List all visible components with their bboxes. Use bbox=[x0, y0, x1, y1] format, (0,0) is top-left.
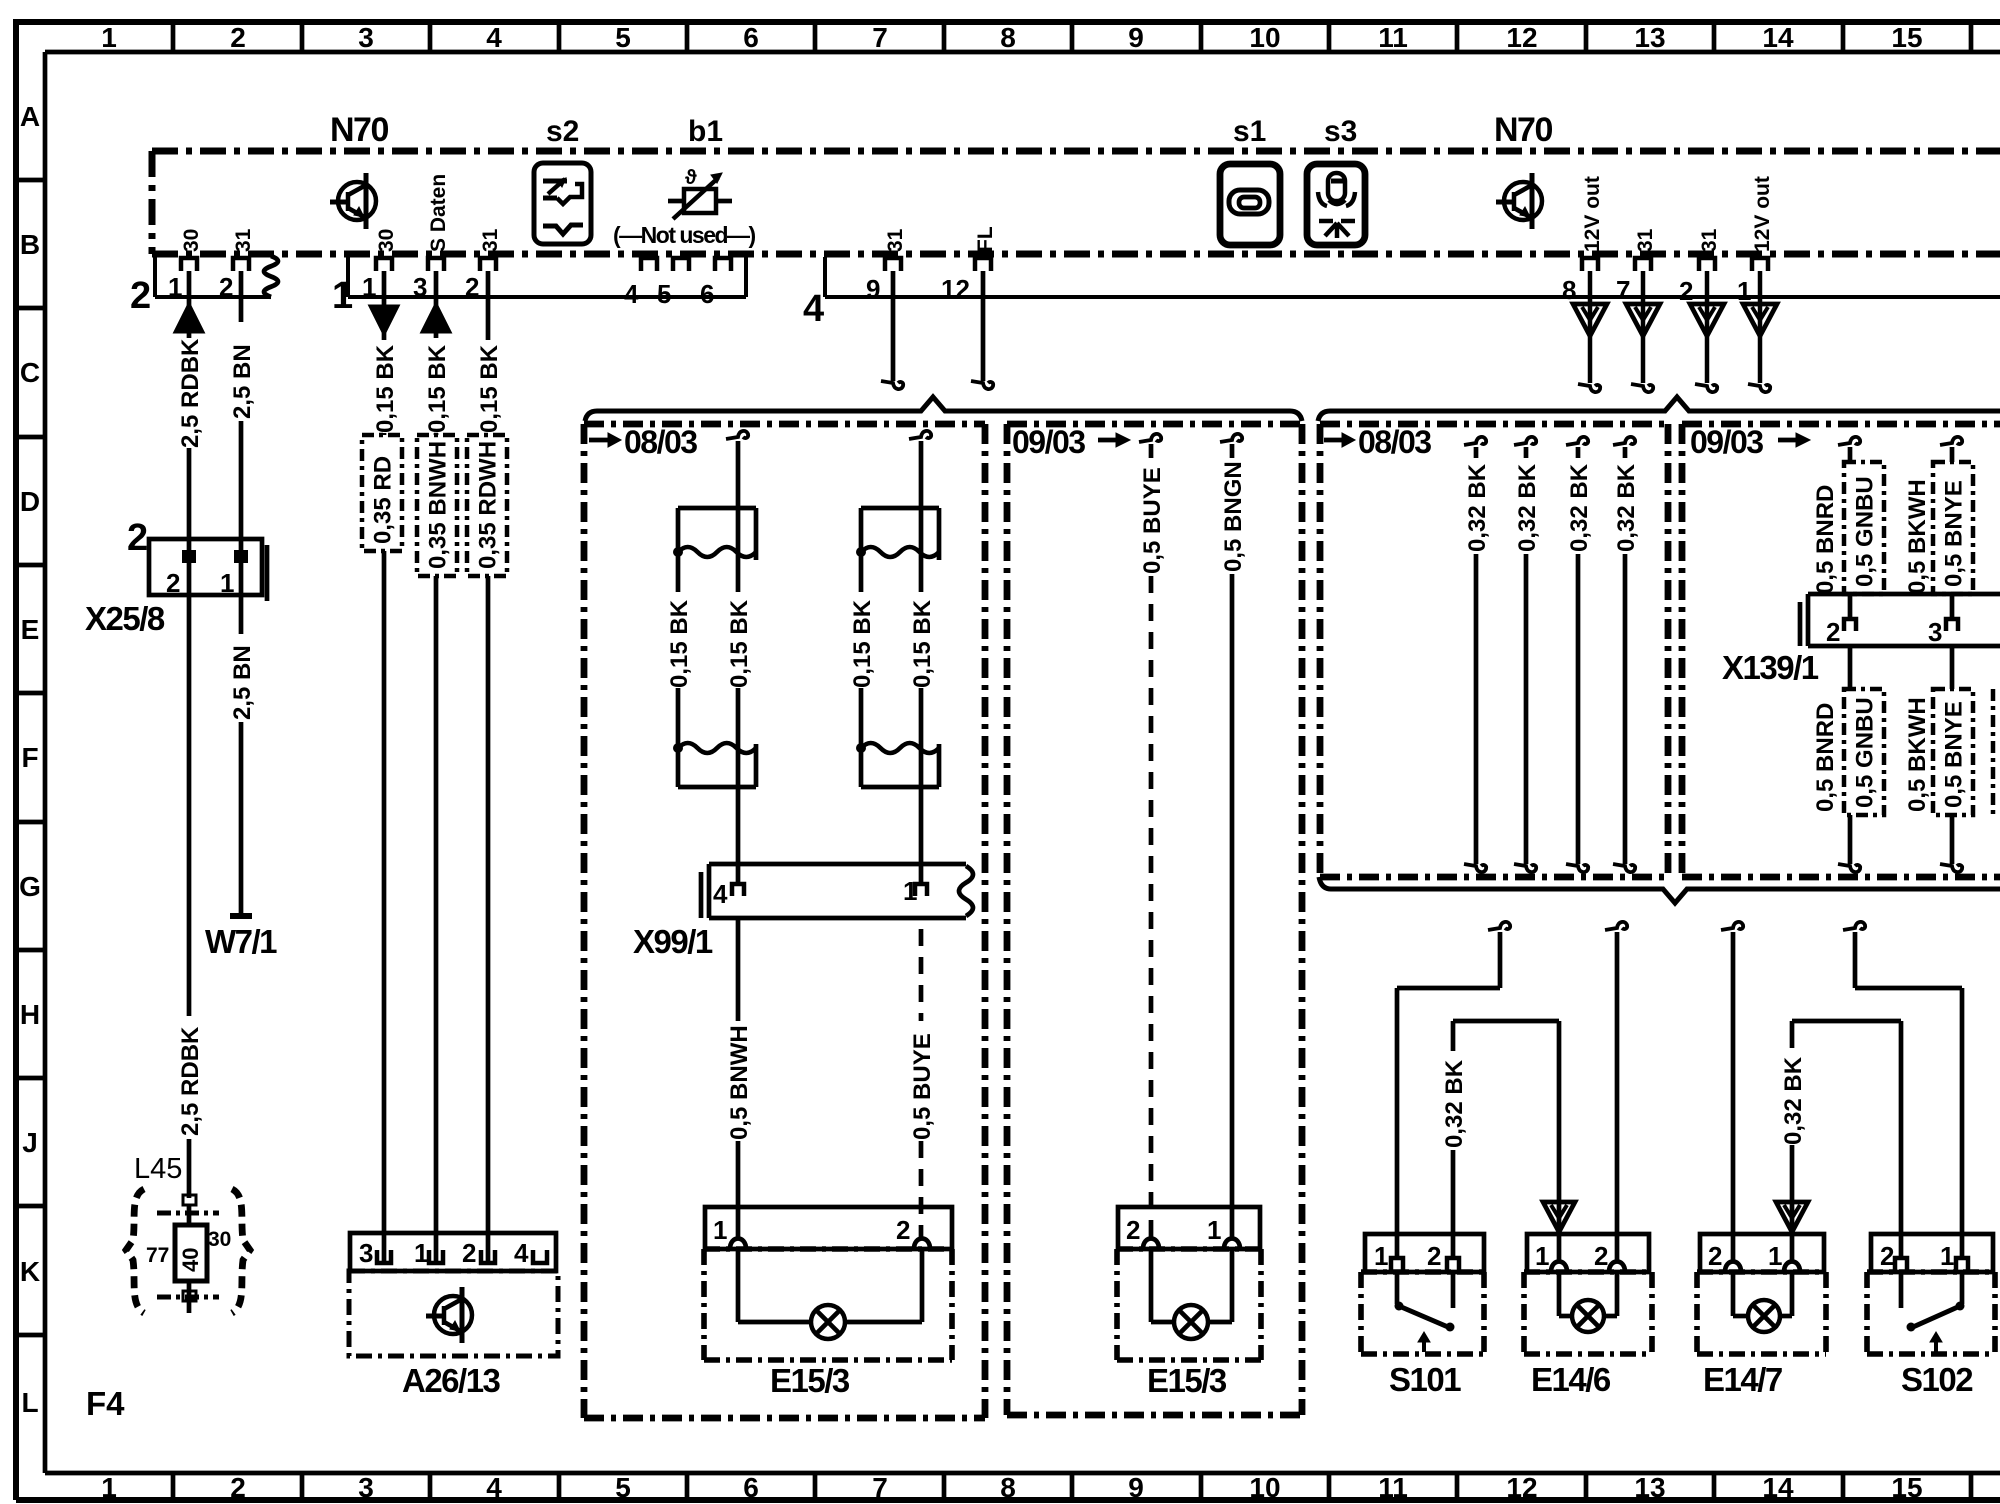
heated door lamp unit E15/3 left box bbox=[704, 1207, 952, 1360]
svg-text:15: 15 bbox=[1891, 22, 1922, 53]
wire 0,5 BNGN bbox=[1220, 434, 1242, 1240]
amplifier A26/13 box bbox=[349, 1233, 558, 1356]
label E15/3 bbox=[770, 1362, 850, 1399]
svg-text:0,15 BK: 0,15 BK bbox=[476, 344, 503, 433]
label s2 bbox=[546, 115, 579, 148]
switch s3 icon in N70 bbox=[1307, 164, 1365, 245]
label s1 bbox=[1233, 115, 1266, 148]
wire to E14/7 pin2 bbox=[1721, 922, 1743, 1260]
wire label 0,32 BK bbox=[1566, 463, 1593, 552]
svg-text:ϑ: ϑ bbox=[685, 167, 697, 189]
svg-text:8: 8 bbox=[1000, 22, 1016, 53]
switch s1 icon in N70 bbox=[1220, 164, 1280, 245]
svg-text:0,5 GNBU: 0,5 GNBU bbox=[1852, 476, 1879, 587]
wire from pin 9 bbox=[881, 271, 903, 389]
harness box 09/03 right (dash-dot) bbox=[1682, 424, 2000, 877]
svg-text:E15/3: E15/3 bbox=[770, 1362, 850, 1399]
svg-text:S Daten: S Daten bbox=[427, 174, 450, 252]
label S101 bbox=[1389, 1361, 1461, 1398]
pin 1 of connector 2 bbox=[168, 258, 197, 302]
wire label 0,32 BK bbox=[1441, 1059, 1468, 1148]
wire label 0,32 BK bbox=[1613, 463, 1640, 552]
label 08/03 with arrow bbox=[1324, 424, 1431, 460]
svg-text:2: 2 bbox=[230, 1472, 246, 1503]
svg-text:2: 2 bbox=[462, 1238, 476, 1268]
terminal label 30 bbox=[375, 229, 398, 252]
label S102 bbox=[1901, 1361, 1973, 1398]
label X25/8 bbox=[85, 600, 165, 637]
svg-text:0,15 BK: 0,15 BK bbox=[372, 344, 399, 433]
wire label 0,5 BNRD bbox=[1812, 485, 1839, 594]
svg-text:3: 3 bbox=[359, 1238, 373, 1268]
pin 6 of connector 1 bbox=[700, 258, 731, 309]
svg-text:09/03: 09/03 bbox=[1690, 424, 1763, 460]
svg-text:0,32 BK: 0,32 BK bbox=[1780, 1056, 1807, 1145]
terminal label 31 bbox=[884, 228, 907, 252]
svg-text:14: 14 bbox=[1762, 22, 1794, 53]
wire label 0,32 BK bbox=[1780, 1056, 1807, 1145]
wire 0,5 BNWH bbox=[736, 918, 741, 1240]
svg-text:0,32 BK: 0,32 BK bbox=[1464, 463, 1491, 552]
pin 5 of connector 1 bbox=[657, 258, 689, 309]
wire spec box 0,5 GNBU bbox=[1844, 462, 1884, 594]
wire label 0,5 BNWH bbox=[726, 1025, 753, 1140]
svg-text:N70: N70 bbox=[330, 111, 388, 149]
wire label 0,32 BK bbox=[1464, 463, 1491, 552]
svg-text:10: 10 bbox=[1249, 1472, 1280, 1503]
wire 2,5 RDBK to fuse F4 bbox=[187, 595, 192, 1198]
svg-text:31: 31 bbox=[232, 228, 255, 252]
svg-text:G: G bbox=[19, 871, 41, 902]
wire label 2,5 RDBK bbox=[177, 338, 204, 448]
label E14/7 bbox=[1703, 1361, 1782, 1398]
label E15/3 bbox=[1147, 1362, 1227, 1399]
svg-text:1: 1 bbox=[1737, 276, 1751, 306]
svg-text:(—Not used—): (—Not used—) bbox=[613, 222, 756, 248]
svg-text:0,32 BK: 0,32 BK bbox=[1441, 1059, 1468, 1148]
svg-text:1: 1 bbox=[220, 568, 234, 598]
wire label 0,5 BNGN bbox=[1220, 461, 1247, 572]
svg-text:11: 11 bbox=[1378, 1472, 1408, 1503]
wire spec box 0,35 RD bbox=[362, 435, 402, 551]
wire 0,15 BK pin2 bbox=[486, 271, 491, 340]
lamp symbol E14/7 bbox=[1748, 1300, 1780, 1332]
label F4 bbox=[86, 1385, 125, 1422]
label W7/1 bbox=[205, 923, 277, 960]
wire to A26/13 pin1 bbox=[434, 576, 439, 1262]
wire spec box 0,5 BNYE bbox=[1933, 689, 1973, 815]
svg-text:2: 2 bbox=[230, 22, 246, 53]
svg-text:12: 12 bbox=[941, 274, 970, 304]
svg-text:1: 1 bbox=[1207, 1215, 1221, 1245]
label 09/03 with arrow bbox=[1012, 424, 1130, 460]
wire from N70 x=1590 bbox=[1573, 271, 1607, 392]
svg-text:s2: s2 bbox=[546, 115, 579, 148]
svg-text:12V out: 12V out bbox=[1751, 176, 1774, 252]
svg-text:0,5 BUYE: 0,5 BUYE bbox=[1139, 467, 1166, 574]
wire spec box 0,35 BNWH bbox=[417, 435, 457, 576]
svg-text:B: B bbox=[20, 229, 40, 260]
svg-text:1: 1 bbox=[101, 1472, 117, 1503]
svg-text:15: 15 bbox=[1891, 1472, 1922, 1503]
wire hook bbox=[909, 431, 931, 508]
label b1 bbox=[688, 115, 723, 148]
svg-text:2: 2 bbox=[1126, 1215, 1140, 1245]
label X99/1 bbox=[633, 923, 713, 960]
wire spec box cropped at edge bbox=[1991, 689, 1996, 815]
svg-text:S101: S101 bbox=[1389, 1361, 1461, 1398]
terminal label 30 bbox=[180, 229, 203, 252]
svg-text:S102: S102 bbox=[1901, 1361, 1973, 1398]
wire label 2,5 BN bbox=[229, 344, 256, 419]
svg-text:0,5 GNBU: 0,5 GNBU bbox=[1852, 697, 1879, 808]
svg-text:40: 40 bbox=[178, 1248, 203, 1272]
svg-text:F4: F4 bbox=[86, 1385, 125, 1422]
svg-text:0,35 RD: 0,35 RD bbox=[370, 456, 397, 544]
svg-text:0,5 BKWH: 0,5 BKWH bbox=[1904, 479, 1931, 594]
wire to E14/6 pin2 bbox=[1605, 922, 1627, 1260]
pin 2 of connector 1 bbox=[465, 258, 496, 302]
wire 0,15 BK bbox=[676, 552, 681, 744]
svg-text:11: 11 bbox=[1378, 22, 1408, 53]
svg-text:1: 1 bbox=[101, 22, 117, 53]
svg-text:D: D bbox=[20, 486, 40, 517]
wire 0,5 BKWH/BNYE upper bbox=[1940, 437, 1962, 620]
svg-text:2,5 BN: 2,5 BN bbox=[229, 645, 256, 720]
svg-text:2: 2 bbox=[465, 272, 479, 302]
harness box 08/03 right (dash-dot) bbox=[1320, 424, 1668, 877]
svg-text:4: 4 bbox=[713, 879, 728, 909]
wiring inside E14/7 bbox=[1733, 1272, 1792, 1316]
wire 2,5 RDBK upper segment bbox=[175, 271, 203, 551]
svg-text:1: 1 bbox=[1940, 1241, 1954, 1271]
wire from N70 x=1643 bbox=[1626, 271, 1660, 392]
wire 0,5 BKWH/BNYE lower bbox=[1940, 646, 1962, 872]
svg-text:4: 4 bbox=[486, 1472, 502, 1503]
svg-text:L: L bbox=[21, 1387, 38, 1418]
glow element lower right bbox=[856, 743, 939, 787]
terminal label 12V out bbox=[1581, 176, 1604, 252]
wire spec box 0,35 RDWH bbox=[467, 435, 507, 576]
svg-text:0,35 RDWH: 0,35 RDWH bbox=[475, 441, 502, 569]
wire 0,32 BK x=1476 bbox=[1464, 437, 1486, 872]
svg-text:H: H bbox=[20, 999, 40, 1030]
svg-text:0,15 BK: 0,15 BK bbox=[849, 599, 876, 688]
terminal label 31 bbox=[479, 228, 502, 252]
lamp symbol E14/6 bbox=[1572, 1300, 1604, 1332]
heated door lamp unit E15/3 right box bbox=[1117, 1207, 1261, 1360]
svg-text:E14/7: E14/7 bbox=[1703, 1361, 1782, 1398]
svg-text:1: 1 bbox=[1768, 1241, 1782, 1271]
svg-text:3: 3 bbox=[358, 22, 374, 53]
svg-text:3: 3 bbox=[413, 272, 427, 302]
wire spec box 0,5 GNBU bbox=[1844, 689, 1884, 815]
svg-text:1: 1 bbox=[1374, 1241, 1388, 1271]
svg-text:1: 1 bbox=[362, 272, 376, 302]
wire 0,15 BK bbox=[736, 508, 741, 748]
svg-text:10: 10 bbox=[1249, 22, 1280, 53]
svg-text:7: 7 bbox=[872, 22, 888, 53]
harness under-brace bbox=[1319, 877, 2000, 903]
glow element upper left bbox=[673, 508, 756, 560]
transistor symbol in A26/13 bbox=[426, 1287, 472, 1343]
wire label 0,5 BNRD bbox=[1812, 703, 1839, 812]
svg-text:0,5 BKWH: 0,5 BKWH bbox=[1904, 697, 1931, 812]
switch s2 icon (window lift) in N70 bbox=[534, 163, 591, 244]
svg-text:13: 13 bbox=[1634, 22, 1665, 53]
svg-text:2: 2 bbox=[219, 272, 233, 302]
svg-text:0,5 BNWH: 0,5 BNWH bbox=[726, 1025, 753, 1140]
svg-text:8: 8 bbox=[1562, 275, 1576, 305]
wire label 0,15 BK bbox=[849, 599, 876, 688]
wire 0,5 BUYE (dashed) bbox=[1139, 434, 1161, 1240]
fuse connection pin top bbox=[157, 1195, 219, 1213]
svg-text:X139/1: X139/1 bbox=[1722, 649, 1819, 686]
svg-text:2,5 RDBK: 2,5 RDBK bbox=[177, 1026, 204, 1136]
svg-text:K: K bbox=[20, 1256, 40, 1287]
terminal label 30 bbox=[208, 1228, 231, 1251]
svg-text:31: 31 bbox=[884, 228, 907, 252]
svg-text:12: 12 bbox=[1506, 1472, 1537, 1503]
svg-text:E15/3: E15/3 bbox=[1147, 1362, 1227, 1399]
svg-text:12: 12 bbox=[1506, 22, 1537, 53]
pin 2 of N70 bbox=[1679, 258, 1715, 306]
wire label 2,5 RDBK bbox=[177, 1026, 204, 1136]
label L45 bbox=[134, 1153, 182, 1185]
wire label 0,5 BKWH bbox=[1904, 479, 1931, 594]
wire to S101 pin1 bbox=[1397, 922, 1510, 1260]
lamp E14/7 box bbox=[1697, 1234, 1826, 1354]
svg-text:31: 31 bbox=[1698, 228, 1721, 252]
wire 2,5 BN to ground bbox=[239, 595, 244, 914]
svg-text:0,5 BNYE: 0,5 BNYE bbox=[1941, 480, 1968, 587]
svg-text:1: 1 bbox=[168, 272, 182, 302]
svg-text:1: 1 bbox=[1535, 1241, 1549, 1271]
svg-text:0,5 BNRD: 0,5 BNRD bbox=[1812, 485, 1839, 594]
connector X99/1 bbox=[701, 864, 973, 918]
terminal label 77 bbox=[146, 1244, 169, 1267]
wire 0,15 BK bbox=[919, 508, 924, 748]
wire 0,15 BK pin1 bbox=[370, 271, 398, 435]
wire 0,32 BK link S101-E14/6 bbox=[1453, 1021, 1575, 1260]
connector X139/1 bbox=[1800, 594, 2000, 647]
wire label 0,15 BK bbox=[424, 344, 451, 433]
svg-text:2: 2 bbox=[1708, 1241, 1722, 1271]
wire label 0,5 BUYE bbox=[1139, 467, 1166, 574]
wire to S102 pin1 bbox=[1843, 922, 1962, 1260]
pin 9 of connector 4 bbox=[866, 258, 901, 304]
svg-text:0,15 BK: 0,15 BK bbox=[424, 344, 451, 433]
wire label 2,5 BN bbox=[229, 645, 256, 720]
wire label 0,15 BK bbox=[666, 599, 693, 688]
switch S102 box bbox=[1867, 1234, 1995, 1354]
svg-text:2: 2 bbox=[166, 568, 180, 598]
switch contact S102 bbox=[1901, 1272, 1965, 1352]
svg-text:E: E bbox=[21, 614, 40, 645]
wire from N70 x=1760 bbox=[1743, 271, 1777, 392]
wire label 0,15 BK bbox=[726, 599, 753, 688]
wire 2,5 BN upper segment bbox=[239, 271, 244, 551]
wire label 0,15 BK bbox=[909, 599, 936, 688]
svg-text:2: 2 bbox=[127, 517, 148, 559]
svg-text:0,5 BNGN: 0,5 BNGN bbox=[1220, 461, 1247, 572]
svg-text:09/03: 09/03 bbox=[1012, 424, 1085, 460]
wire label 0,5 BUYE bbox=[909, 1033, 936, 1140]
label 09/03 with arrow bbox=[1690, 424, 1810, 460]
svg-text:5: 5 bbox=[615, 1472, 631, 1503]
lamp symbol E15/3 right bbox=[1174, 1305, 1208, 1339]
harness box 08/03 left (dash-dot) bbox=[584, 424, 985, 1418]
svg-text:9: 9 bbox=[1128, 1472, 1144, 1503]
svg-text:s3: s3 bbox=[1324, 115, 1357, 148]
wire from pin 12 bbox=[971, 271, 993, 389]
svg-text:1: 1 bbox=[332, 275, 353, 317]
pin 4 of connector 1 bbox=[624, 258, 657, 309]
svg-text:12V out: 12V out bbox=[1581, 176, 1604, 252]
svg-text:1: 1 bbox=[414, 1238, 428, 1268]
svg-text:F: F bbox=[21, 742, 38, 773]
svg-text:0,15 BK: 0,15 BK bbox=[726, 599, 753, 688]
svg-text:X25/8: X25/8 bbox=[85, 600, 165, 637]
wire 0,5 BUYE (dashed) bbox=[919, 929, 924, 1240]
svg-text:1: 1 bbox=[903, 876, 917, 906]
switch contact S101 bbox=[1395, 1272, 1455, 1352]
svg-text:8: 8 bbox=[1000, 1472, 1016, 1503]
svg-text:4: 4 bbox=[486, 22, 502, 53]
pin 1 of connector 1 bbox=[362, 258, 392, 302]
svg-text:C: C bbox=[20, 357, 40, 388]
wire label 0,15 BK bbox=[476, 344, 503, 433]
svg-text:A: A bbox=[20, 101, 40, 132]
wiring inside E14/6 bbox=[1559, 1272, 1617, 1316]
svg-text:2,5 RDBK: 2,5 RDBK bbox=[177, 338, 204, 448]
svg-text:4: 4 bbox=[624, 279, 639, 309]
svg-text:30: 30 bbox=[180, 229, 203, 252]
svg-text:2: 2 bbox=[1826, 617, 1840, 647]
svg-text:J: J bbox=[22, 1127, 38, 1158]
svg-text:L45: L45 bbox=[134, 1153, 182, 1185]
svg-text:5: 5 bbox=[657, 279, 671, 309]
svg-text:2,5 BN: 2,5 BN bbox=[229, 344, 256, 419]
wire label 0,15 BK bbox=[372, 344, 399, 433]
label 08/03 with arrow bbox=[589, 424, 697, 460]
svg-text:0,32 BK: 0,32 BK bbox=[1566, 463, 1593, 552]
connector bracket 1 at N70 bbox=[348, 254, 746, 297]
wire to X99/1 pin1 bbox=[919, 748, 924, 884]
svg-text:31: 31 bbox=[479, 228, 502, 252]
svg-text:9: 9 bbox=[1128, 22, 1144, 53]
svg-text:N70: N70 bbox=[1494, 111, 1552, 149]
svg-text:2: 2 bbox=[1427, 1241, 1441, 1271]
harness brace right bbox=[1318, 397, 2000, 421]
wire hook bbox=[726, 431, 748, 508]
label Not used bbox=[613, 222, 756, 248]
svg-text:6: 6 bbox=[743, 1472, 759, 1503]
wire to X99/1 pin4 bbox=[736, 748, 741, 884]
connector number 2 bbox=[130, 275, 151, 317]
terminal label 12V out bbox=[1751, 176, 1774, 252]
svg-text:5: 5 bbox=[615, 22, 631, 53]
svg-text:13: 13 bbox=[1634, 1472, 1665, 1503]
label A26/13 bbox=[402, 1362, 501, 1399]
svg-text:31: 31 bbox=[1634, 228, 1657, 252]
svg-text:4: 4 bbox=[803, 288, 824, 330]
pin 8 of N70 bbox=[1562, 258, 1598, 305]
pin 7 of N70 bbox=[1616, 258, 1651, 305]
wire spec box 0,5 BNYE bbox=[1933, 462, 1973, 594]
glow element lower left bbox=[673, 743, 756, 787]
label E14/6 bbox=[1531, 1361, 1611, 1398]
wire 0,32 BK link S102-E14/7 bbox=[1776, 1021, 1901, 1260]
label X139/1 bbox=[1722, 649, 1819, 686]
svg-text:2: 2 bbox=[1594, 1241, 1608, 1271]
svg-text:0,5 BUYE: 0,5 BUYE bbox=[909, 1033, 936, 1140]
transistor symbol in N70 right bbox=[1496, 173, 1542, 229]
svg-text:X99/1: X99/1 bbox=[633, 923, 713, 960]
wire from N70 x=1707 bbox=[1690, 271, 1724, 392]
svg-text:0,32 BK: 0,32 BK bbox=[1514, 463, 1541, 552]
connector bracket 4 at N70 bbox=[825, 257, 2000, 297]
svg-text:3: 3 bbox=[1928, 617, 1942, 647]
temperature sensor b1 icon in N70 bbox=[668, 167, 732, 219]
harness box 09/03 left (dash-dot) bbox=[1007, 424, 1302, 1415]
wiring inside E15/3 right bbox=[1151, 1249, 1232, 1322]
wire label 0,5 BKWH bbox=[1904, 697, 1931, 812]
pin 12 of connector 4 bbox=[941, 258, 991, 304]
wire label 0,32 BK bbox=[1514, 463, 1541, 552]
svg-text:b1: b1 bbox=[688, 115, 723, 148]
wire 0,32 BK x=1625 bbox=[1613, 437, 1635, 872]
terminal label 31 bbox=[1698, 228, 1721, 252]
svg-text:77: 77 bbox=[146, 1244, 169, 1267]
svg-text:7: 7 bbox=[872, 1472, 888, 1503]
wire 0,5 BNRD/GNBU lower bbox=[1838, 646, 1860, 872]
pin 1 of N70 bbox=[1737, 258, 1768, 306]
wire to A26/13 pin2 bbox=[486, 576, 491, 1262]
wire 0,5 BNRD/GNBU upper bbox=[1838, 437, 1860, 620]
svg-text:6: 6 bbox=[743, 22, 759, 53]
svg-text:1: 1 bbox=[713, 1215, 727, 1245]
svg-text:2: 2 bbox=[1880, 1241, 1894, 1271]
harness brace left bbox=[585, 397, 1302, 421]
label s3 bbox=[1324, 115, 1357, 148]
wire 0,15 BK bbox=[859, 552, 864, 744]
fuse rating 40 bbox=[178, 1248, 203, 1272]
svg-text:FL: FL bbox=[974, 226, 997, 252]
svg-text:7: 7 bbox=[1616, 275, 1630, 305]
fuse connection pin bottom bbox=[157, 1281, 219, 1313]
wiring inside E15/3 left bbox=[738, 1249, 922, 1322]
svg-text:0,32 BK: 0,32 BK bbox=[1613, 463, 1640, 552]
label N70 left bbox=[330, 111, 388, 149]
svg-text:W7/1: W7/1 bbox=[205, 923, 277, 960]
connector bracket 2 at N70 bbox=[155, 254, 278, 297]
control unit N70 overload protection relay box (dash-dot) bbox=[152, 151, 2000, 254]
svg-text:2: 2 bbox=[130, 275, 151, 317]
svg-text:0,15 BK: 0,15 BK bbox=[666, 599, 693, 688]
svg-text:0,5 BNRD: 0,5 BNRD bbox=[1812, 703, 1839, 812]
lamp symbol E15/3 left bbox=[811, 1305, 845, 1339]
svg-text:0,35 BNWH: 0,35 BNWH bbox=[425, 441, 452, 569]
glow element upper right bbox=[856, 508, 939, 560]
ground point W7/1 bbox=[230, 913, 252, 919]
svg-text:0,15 BK: 0,15 BK bbox=[909, 599, 936, 688]
fuse F4 body bbox=[175, 1205, 207, 1281]
terminal label 31 bbox=[232, 228, 255, 252]
dashed housing L45 braces bbox=[126, 1189, 250, 1313]
svg-text:08/03: 08/03 bbox=[624, 424, 697, 460]
transistor symbol in N70 left bbox=[330, 173, 376, 229]
